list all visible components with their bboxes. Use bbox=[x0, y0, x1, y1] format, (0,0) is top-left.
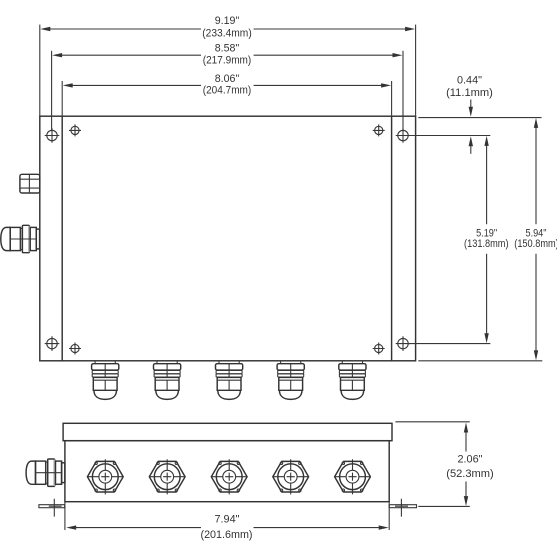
hex gland 3 (bottom view) bbox=[211, 459, 247, 494]
enclosure body right edge bbox=[391, 116, 393, 361]
dimension 2.06in line bbox=[465, 432, 467, 498]
extension line box right bbox=[391, 81, 393, 116]
dimension 8.06in line bbox=[72, 84, 384, 86]
svg-text:7.94": 7.94" bbox=[215, 514, 240, 526]
dimension 0.44in arrows bbox=[470, 100, 472, 108]
extension line body right bbox=[388, 502, 390, 530]
lid screw top-right bbox=[373, 124, 385, 136]
hex gland 4 (bottom view) bbox=[273, 459, 309, 494]
side cable gland on left wall (bottom view) bbox=[26, 459, 65, 486]
flange hole top-right bbox=[396, 128, 411, 143]
extension line box top edge bbox=[418, 117, 541, 119]
extension line hole left bbox=[51, 51, 53, 131]
dimension 5.19in line bbox=[486, 145, 488, 335]
svg-text:8.58": 8.58" bbox=[215, 42, 240, 54]
extension line flange left bbox=[39, 25, 41, 117]
bottom gland 1 (front view) bbox=[92, 361, 119, 400]
lid screw bottom-right bbox=[373, 343, 385, 355]
dimension 8.58in line bbox=[61, 54, 395, 56]
bottom gland 3 (front view) bbox=[216, 361, 243, 400]
lid (bottom view) bbox=[63, 423, 392, 440]
dimension 5.94in line bbox=[535, 127, 537, 352]
dimension 9.19in line bbox=[49, 28, 407, 30]
flange hole bottom-right bbox=[396, 336, 411, 351]
hex gland 5 (bottom view) bbox=[334, 459, 370, 494]
extension line lid top bbox=[395, 421, 469, 423]
svg-text:2.06": 2.06" bbox=[458, 454, 483, 466]
bottom gland 5 (front view) bbox=[339, 361, 366, 400]
lid screw bottom-left bbox=[69, 343, 81, 355]
flange hole bottom-left bbox=[45, 336, 60, 351]
bottom gland 4 (front view) bbox=[277, 361, 304, 400]
svg-text:(131.8mm): (131.8mm) bbox=[464, 238, 509, 250]
extension line box left bbox=[61, 81, 63, 116]
svg-text:(150.8mm): (150.8mm) bbox=[514, 238, 557, 250]
hex gland 1 (bottom view) bbox=[87, 459, 123, 494]
enclosure back flange outline bbox=[40, 116, 416, 361]
svg-text:9.19": 9.19" bbox=[215, 15, 240, 27]
extension line tab bottom bbox=[418, 505, 470, 507]
top hole centre line bbox=[408, 135, 490, 137]
body (bottom view) bbox=[65, 441, 389, 502]
extension line body left bbox=[64, 502, 66, 530]
side cable gland on left wall (front view) bbox=[1, 225, 40, 252]
bottom gland 2 (front view) bbox=[154, 361, 181, 400]
svg-text:(52.3mm): (52.3mm) bbox=[446, 468, 494, 480]
svg-text:(204.7mm): (204.7mm) bbox=[203, 84, 252, 96]
dimension 7.94in line bbox=[76, 527, 381, 529]
svg-text:(217.9mm): (217.9mm) bbox=[203, 54, 252, 66]
enclosure body left edge bbox=[61, 116, 63, 361]
svg-text:8.06": 8.06" bbox=[215, 73, 240, 85]
right mounting tab bbox=[389, 499, 416, 517]
left mounting tab bbox=[39, 499, 65, 517]
hex gland 2 (bottom view) bbox=[149, 459, 185, 494]
svg-text:(11.1mm): (11.1mm) bbox=[446, 87, 493, 99]
svg-text:(201.6mm): (201.6mm) bbox=[201, 529, 253, 541]
svg-text:(233.4mm): (233.4mm) bbox=[202, 28, 252, 40]
lid screw top-left bbox=[69, 124, 81, 136]
extension line hole right bbox=[402, 51, 404, 131]
hex plug on left wall bbox=[20, 174, 40, 194]
extension line box bottom edge bbox=[418, 360, 542, 362]
extension line flange right bbox=[415, 25, 417, 117]
svg-text:0.44": 0.44" bbox=[457, 74, 482, 86]
flange hole top-left bbox=[45, 128, 60, 143]
bottom hole centre line bbox=[408, 343, 490, 345]
